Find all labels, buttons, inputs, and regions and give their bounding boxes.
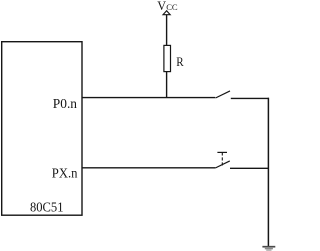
wire PX.n to switch S2	[82, 167, 215, 169]
switch S2 push-button shaft dashed	[221, 152, 223, 165]
ground bar 3	[266, 249, 271, 251]
switch S2 push-button cap	[217, 151, 227, 153]
svg-text:80C51: 80C51	[30, 201, 64, 216]
svg-text:R: R	[176, 54, 184, 69]
wire right rail vertical	[267, 98, 269, 246]
wire switch S1 to right rail	[231, 97, 269, 99]
ground bar 1	[262, 246, 275, 248]
wire resistor bottom stem	[166, 72, 168, 98]
svg-text:PX.n: PX.n	[52, 167, 78, 182]
wire switch S2 to right rail	[230, 167, 269, 169]
resistor R body	[164, 45, 171, 71]
svg-text:P0.n: P0.n	[53, 97, 77, 112]
IC U1 80C51 box	[2, 42, 82, 216]
ground bar 2	[265, 248, 273, 250]
switch S1 blade	[216, 91, 231, 98]
wire P0.n to switch S1	[82, 97, 215, 99]
power VCC arrow symbol	[163, 11, 170, 15]
switch S2 blade	[215, 161, 230, 168]
wire VCC stem	[166, 15, 168, 46]
